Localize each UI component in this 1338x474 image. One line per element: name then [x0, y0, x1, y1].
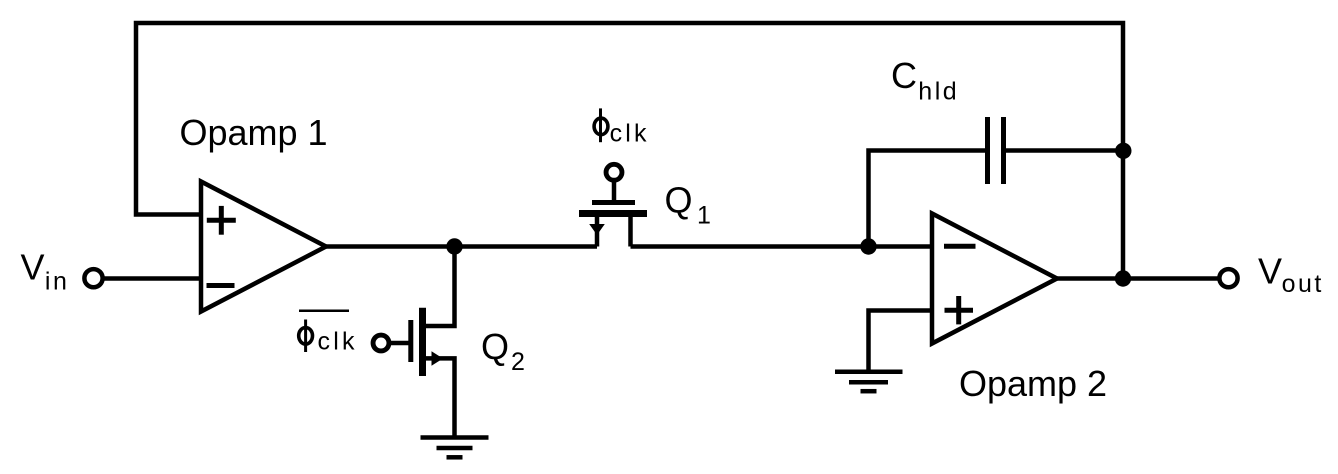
- svg-text:clk: clk: [610, 120, 650, 148]
- svg-text:clk: clk: [318, 328, 358, 356]
- svg-text:Q: Q: [665, 180, 693, 221]
- svg-text:Opamp 1: Opamp 1: [180, 112, 328, 153]
- svg-text:Q: Q: [481, 326, 509, 367]
- svg-text:hld: hld: [918, 78, 959, 106]
- svg-text:Opamp 2: Opamp 2: [959, 363, 1107, 404]
- svg-text:V: V: [21, 247, 45, 288]
- svg-text:C: C: [891, 55, 917, 96]
- svg-text:1: 1: [697, 202, 713, 230]
- svg-text:out: out: [1282, 270, 1324, 298]
- svg-text:V: V: [1258, 251, 1282, 292]
- svg-text:in: in: [45, 268, 69, 296]
- svg-text:2: 2: [511, 348, 527, 376]
